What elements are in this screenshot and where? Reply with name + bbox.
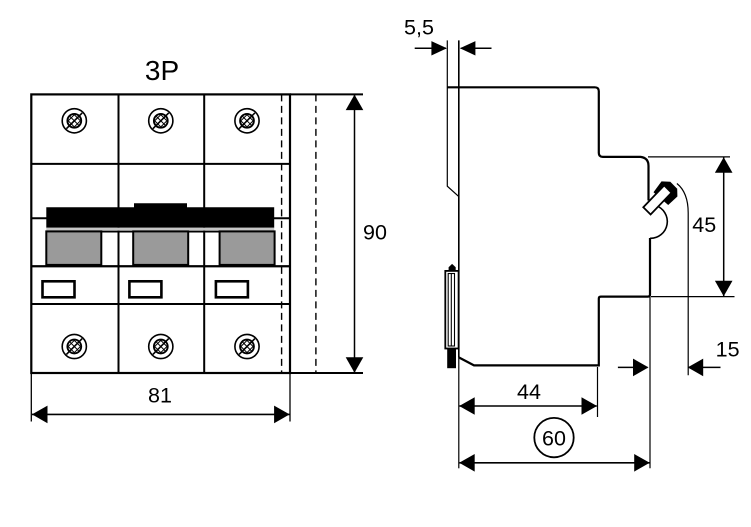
window 3 xyxy=(216,281,248,297)
dim 60 line xyxy=(459,462,649,464)
pole divider 2 xyxy=(203,94,205,373)
svg-text:81: 81 xyxy=(148,384,172,408)
top extension line xyxy=(290,93,363,95)
curve to 15 extension xyxy=(677,184,688,376)
dim 81 ext right xyxy=(289,374,291,422)
DIN clip bottom block xyxy=(447,349,456,369)
back edge lower extension xyxy=(458,358,460,469)
breaker front body outline xyxy=(31,94,290,373)
svg-text:90: 90 xyxy=(363,220,387,244)
dim 45 top extension xyxy=(648,156,730,158)
dim 5,5 left line+arrow xyxy=(415,47,446,49)
svg-text:3P: 3P xyxy=(145,55,179,86)
svg-text:15: 15 xyxy=(716,338,740,362)
bottom extension line xyxy=(290,372,363,374)
DIN clip top arrow xyxy=(449,264,456,271)
svg-text:5,5: 5,5 xyxy=(404,15,434,39)
lever housing arc xyxy=(650,206,667,239)
window 1 xyxy=(43,281,75,297)
dashed module line outer xyxy=(315,94,317,373)
DIN clip outer xyxy=(445,271,458,349)
rocker 1 (gray) xyxy=(46,231,101,265)
dim 81 line xyxy=(32,413,290,415)
divider under rockers xyxy=(31,265,290,267)
dim 15 right line+arrow xyxy=(689,366,721,368)
terminal screw 5 xyxy=(149,334,173,358)
rocker 3 (gray) xyxy=(220,231,275,265)
dashed module line inner xyxy=(281,94,283,373)
dim 5,5 right line+arrow xyxy=(461,47,492,49)
window 2 xyxy=(129,281,161,297)
back edge line xyxy=(458,40,460,357)
dim 60 ext right xyxy=(649,297,651,468)
lever handle (white) xyxy=(643,185,671,214)
terminal screw 4 xyxy=(62,334,86,358)
svg-text:44: 44 xyxy=(517,380,541,404)
dim 45 line xyxy=(723,158,725,297)
black line under strip xyxy=(46,231,274,233)
latch (black) xyxy=(654,181,678,205)
horizontal divider 1 xyxy=(31,163,290,165)
svg-text:60: 60 xyxy=(542,426,566,450)
horizontal divider 3 xyxy=(31,265,290,267)
dim 81 ext left xyxy=(30,374,32,422)
pole divider 1 xyxy=(118,94,120,373)
terminal screw 3 xyxy=(235,109,259,133)
dim 60 circle xyxy=(534,418,573,457)
terminal screw 1 xyxy=(62,109,86,133)
dim 45 bottom extension xyxy=(651,296,735,298)
horizontal divider 2 xyxy=(31,217,290,219)
light strip under bar xyxy=(46,228,274,231)
dim 44 line xyxy=(459,405,597,407)
side body profile upper xyxy=(447,87,648,200)
terminal screw 6 xyxy=(235,334,259,358)
toggle bar (black) xyxy=(46,203,274,227)
svg-text:45: 45 xyxy=(692,213,716,237)
horizontal divider 4 xyxy=(31,303,290,305)
mounting plane thin line xyxy=(447,40,459,196)
side body profile lower xyxy=(459,238,650,365)
terminal screw 2 xyxy=(149,109,173,133)
dim 90 line xyxy=(354,95,356,373)
dim 44 ext right xyxy=(597,367,599,417)
rocker 2 (gray) xyxy=(133,231,188,265)
dim 15 left line+arrow xyxy=(618,366,648,368)
DIN clip inner xyxy=(448,274,454,347)
